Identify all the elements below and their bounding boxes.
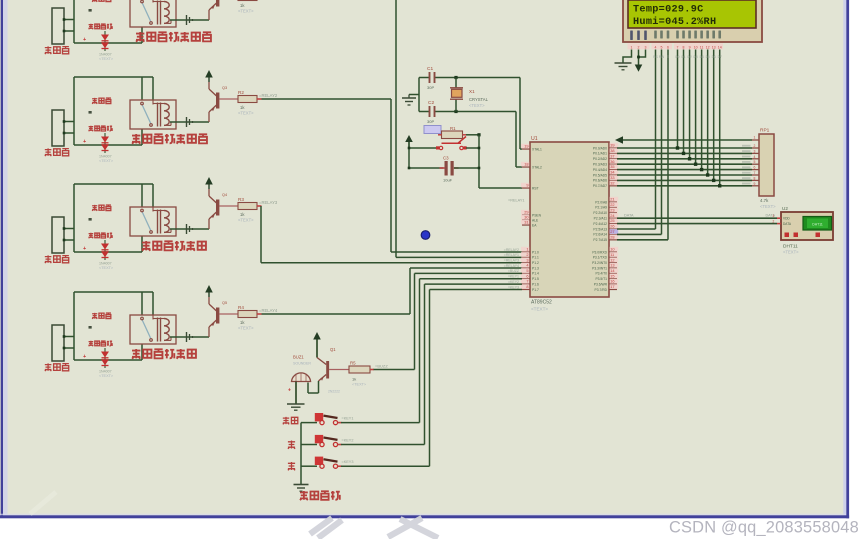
svg-text:P2.7/A15: P2.7/A15 [593, 238, 607, 242]
svg-text:R1: R1 [450, 126, 456, 131]
svg-text:32: 32 [610, 180, 614, 185]
svg-text:7: 7 [754, 171, 756, 175]
svg-text:U1: U1 [531, 136, 538, 142]
svg-text:7: 7 [677, 45, 679, 49]
svg-text:P3.0/RXD: P3.0/RXD [592, 250, 607, 254]
svg-text:11: 11 [700, 45, 704, 49]
svg-text:<TEXT>: <TEXT> [238, 111, 254, 116]
svg-text:P1.2: P1.2 [532, 261, 539, 265]
svg-text:3: 3 [645, 45, 647, 49]
svg-text:CSDN @qq_2083558048: CSDN @qq_2083558048 [669, 519, 859, 537]
svg-text:D7: D7 [718, 55, 722, 59]
svg-text:8: 8 [754, 176, 756, 180]
svg-text:P2.5/A13: P2.5/A13 [593, 227, 607, 231]
svg-text:DATA: DATA [783, 222, 792, 226]
svg-text:=KEY1: =KEY1 [508, 275, 519, 279]
svg-text:P0.1/AD1: P0.1/AD1 [593, 152, 607, 156]
svg-text:6: 6 [526, 273, 528, 278]
svg-text:39: 39 [610, 143, 614, 148]
svg-text:36: 36 [610, 159, 614, 164]
svg-text:1N4007: 1N4007 [99, 370, 112, 374]
svg-text:9: 9 [754, 182, 756, 186]
svg-text:D6: D6 [712, 55, 716, 59]
svg-text:13: 13 [610, 263, 614, 268]
svg-text:+: + [83, 354, 86, 360]
svg-text:BUZ1: BUZ1 [293, 355, 304, 360]
svg-text:21: 21 [610, 197, 614, 202]
svg-text:<TEXT>: <TEXT> [99, 266, 114, 270]
svg-text:P2.4/A12: P2.4/A12 [593, 222, 607, 226]
svg-text:XTAL1: XTAL1 [532, 147, 542, 151]
svg-text:=BUZZ: =BUZZ [375, 364, 388, 369]
svg-text:<TEXT>: <TEXT> [99, 159, 114, 163]
svg-text:R4: R4 [238, 305, 244, 310]
svg-text:C3: C3 [443, 156, 449, 161]
svg-text:<TEXT>: <TEXT> [783, 250, 799, 255]
svg-text:1k: 1k [352, 377, 356, 382]
svg-text:=BUZZ: =BUZZ [508, 269, 520, 273]
svg-text:P1.5: P1.5 [532, 277, 539, 281]
svg-text:7: 7 [526, 279, 528, 284]
svg-text:P3.4/T0: P3.4/T0 [595, 272, 607, 276]
svg-text:AT89C52: AT89C52 [531, 300, 552, 306]
svg-text:+: + [83, 246, 86, 252]
svg-text:P0.2/AD2: P0.2/AD2 [593, 157, 607, 161]
svg-text:2: 2 [754, 144, 756, 148]
svg-text:22: 22 [610, 202, 614, 207]
svg-text:30P: 30P [427, 85, 434, 90]
svg-text:=KEY2: =KEY2 [342, 438, 354, 442]
svg-text:P0.5/AD5: P0.5/AD5 [593, 173, 607, 177]
svg-text:P0.4/AD4: P0.4/AD4 [593, 168, 607, 172]
svg-text:14: 14 [718, 45, 722, 49]
svg-text:P3.2/INT0: P3.2/INT0 [592, 261, 607, 265]
svg-text:35: 35 [610, 164, 614, 169]
svg-text:19: 19 [524, 144, 528, 149]
svg-text:P3.5/T1: P3.5/T1 [595, 277, 607, 281]
svg-text:=RELAY2: =RELAY2 [504, 248, 519, 252]
svg-text:4: 4 [655, 45, 657, 49]
svg-text:<TEXT>: <TEXT> [469, 103, 485, 108]
svg-text:18: 18 [524, 162, 528, 167]
svg-text:9: 9 [689, 45, 691, 49]
svg-text:Humi=045.2%RH: Humi=045.2%RH [633, 16, 716, 28]
svg-text:P1.3: P1.3 [532, 266, 539, 270]
svg-text:1: 1 [526, 247, 528, 252]
svg-text:+: + [288, 388, 291, 394]
svg-text:P1.1: P1.1 [532, 256, 539, 260]
svg-text:12: 12 [610, 257, 614, 262]
svg-text:C2: C2 [428, 100, 434, 106]
svg-text:1: 1 [773, 214, 775, 218]
svg-text:10: 10 [694, 45, 698, 49]
svg-text:1N4007: 1N4007 [99, 262, 112, 266]
svg-text:P1.7: P1.7 [532, 288, 539, 292]
svg-text:P2.6/A14: P2.6/A14 [593, 233, 607, 237]
svg-text:=RELAY1: =RELAY1 [508, 199, 525, 203]
svg-text:1N4007: 1N4007 [99, 53, 112, 57]
svg-text:31: 31 [524, 220, 528, 225]
svg-text:=RELAY3: =RELAY3 [504, 259, 519, 263]
svg-text:<TEXT>: <TEXT> [238, 218, 254, 223]
svg-text:D2: D2 [688, 55, 692, 59]
svg-text:<TEXT>: <TEXT> [760, 204, 776, 209]
svg-text:=RELAY4: =RELAY4 [259, 308, 278, 313]
svg-text:2N2222: 2N2222 [328, 390, 340, 394]
svg-text:VDD: VDD [783, 217, 790, 221]
svg-text:3: 3 [526, 257, 528, 262]
svg-text:=KEY3: =KEY3 [508, 285, 519, 289]
svg-text:=KEY2: =KEY2 [508, 280, 519, 284]
svg-text:R3: R3 [238, 197, 244, 202]
svg-text:5: 5 [754, 160, 756, 164]
svg-text:2: 2 [526, 252, 528, 257]
svg-text:2: 2 [638, 45, 640, 49]
svg-text:Q5: Q5 [222, 301, 227, 305]
svg-text:P0.0/AD0: P0.0/AD0 [593, 146, 607, 150]
svg-text:CRYSTAL: CRYSTAL [469, 97, 489, 102]
svg-text:P3.6/WR: P3.6/WR [594, 282, 608, 286]
svg-text:=RELAY1: =RELAY1 [504, 253, 519, 257]
svg-text:P0.6/AD6: P0.6/AD6 [593, 179, 607, 183]
svg-text:ALE: ALE [532, 218, 539, 222]
svg-text:RW: RW [659, 55, 664, 59]
svg-text:Q3: Q3 [222, 86, 227, 90]
svg-text:P3.1/TXD: P3.1/TXD [593, 256, 608, 260]
svg-text:P1.0: P1.0 [532, 250, 539, 254]
svg-text:Q1: Q1 [330, 347, 336, 352]
svg-text:P2.2/A10: P2.2/A10 [593, 211, 607, 215]
svg-text:6: 6 [754, 166, 756, 170]
svg-text:RST: RST [532, 186, 539, 190]
svg-text:11: 11 [610, 252, 614, 257]
svg-text:Temp=029.9C: Temp=029.9C [633, 5, 704, 16]
svg-text:C1: C1 [427, 66, 433, 72]
svg-text:XTAL2: XTAL2 [532, 165, 542, 169]
svg-text:P1.6: P1.6 [532, 282, 539, 286]
svg-text:P2.3/A11: P2.3/A11 [594, 217, 607, 221]
svg-text:10uF: 10uF [443, 178, 453, 183]
svg-text:+: + [83, 139, 86, 145]
svg-text:DHT11: DHT11 [812, 223, 823, 227]
svg-text:<TEXT>: <TEXT> [531, 307, 548, 312]
svg-text:DATA: DATA [624, 213, 634, 217]
svg-text:4.7k: 4.7k [760, 198, 769, 203]
svg-text:37: 37 [610, 153, 614, 158]
svg-text:15: 15 [610, 273, 614, 278]
svg-text:23: 23 [610, 207, 614, 212]
svg-text:<TEXT>: <TEXT> [238, 9, 254, 14]
svg-text:P1.4: P1.4 [532, 272, 539, 276]
svg-text:2: 2 [773, 219, 775, 223]
svg-text:6: 6 [667, 45, 669, 49]
svg-text:P3.7/RD: P3.7/RD [595, 288, 608, 292]
svg-text:P0.3/AD3: P0.3/AD3 [593, 163, 607, 167]
svg-text:D4: D4 [700, 55, 704, 59]
svg-text:D1: D1 [681, 55, 685, 59]
svg-text:RP1: RP1 [760, 128, 770, 134]
svg-text:U2: U2 [782, 206, 788, 211]
svg-text:<TEXT>: <TEXT> [99, 374, 114, 378]
svg-text:R2: R2 [238, 90, 244, 95]
svg-text:+: + [83, 37, 86, 43]
svg-text:RS: RS [653, 55, 657, 59]
svg-text:12: 12 [706, 45, 710, 49]
svg-text:=KEY1: =KEY1 [342, 416, 354, 420]
svg-text:SOUNDER: SOUNDER [293, 362, 311, 366]
svg-text:17: 17 [610, 284, 614, 289]
svg-text:D0: D0 [675, 55, 679, 59]
svg-text:E: E [667, 55, 669, 59]
svg-text:28: 28 [610, 234, 614, 239]
svg-text:13: 13 [712, 45, 716, 49]
svg-text:3: 3 [754, 149, 756, 153]
svg-text:D3: D3 [694, 55, 698, 59]
svg-text:8: 8 [526, 284, 528, 289]
svg-text:=RELAY3: =RELAY3 [259, 200, 278, 205]
svg-text:X1: X1 [469, 89, 475, 94]
svg-text:P2.0/A8: P2.0/A8 [595, 200, 607, 204]
svg-text:1: 1 [754, 136, 756, 140]
svg-text:1N4007: 1N4007 [99, 155, 112, 159]
svg-text:<TEXT>: <TEXT> [352, 383, 367, 387]
svg-text:25: 25 [610, 218, 614, 223]
svg-text:<TEXT>: <TEXT> [99, 57, 114, 61]
svg-text:38: 38 [610, 148, 614, 153]
svg-text:5: 5 [526, 268, 528, 273]
svg-text:=RELAY4: =RELAY4 [504, 264, 519, 268]
svg-text:P2.1/A9: P2.1/A9 [595, 206, 607, 210]
svg-text:30P: 30P [427, 119, 434, 124]
svg-text:D5: D5 [706, 55, 710, 59]
svg-text:16: 16 [610, 279, 614, 284]
svg-text:PSEN: PSEN [532, 213, 542, 217]
svg-text:=KEY3: =KEY3 [342, 460, 354, 464]
svg-text:4: 4 [754, 155, 756, 159]
svg-text:=RELAY2: =RELAY2 [259, 93, 278, 98]
svg-text:8: 8 [683, 45, 685, 49]
svg-text:P3.3/INT1: P3.3/INT1 [592, 266, 607, 270]
svg-text:1: 1 [631, 45, 633, 49]
svg-text:Q4: Q4 [222, 193, 227, 197]
svg-text:<TEXT>: <TEXT> [238, 326, 254, 331]
svg-text:27: 27 [610, 229, 614, 234]
svg-text:26: 26 [610, 224, 614, 229]
svg-text:R5: R5 [350, 361, 356, 366]
svg-text:5: 5 [661, 45, 663, 49]
svg-text:9: 9 [526, 183, 528, 188]
svg-text:33: 33 [610, 175, 614, 180]
svg-text:P0.7/AD7: P0.7/AD7 [593, 184, 607, 188]
